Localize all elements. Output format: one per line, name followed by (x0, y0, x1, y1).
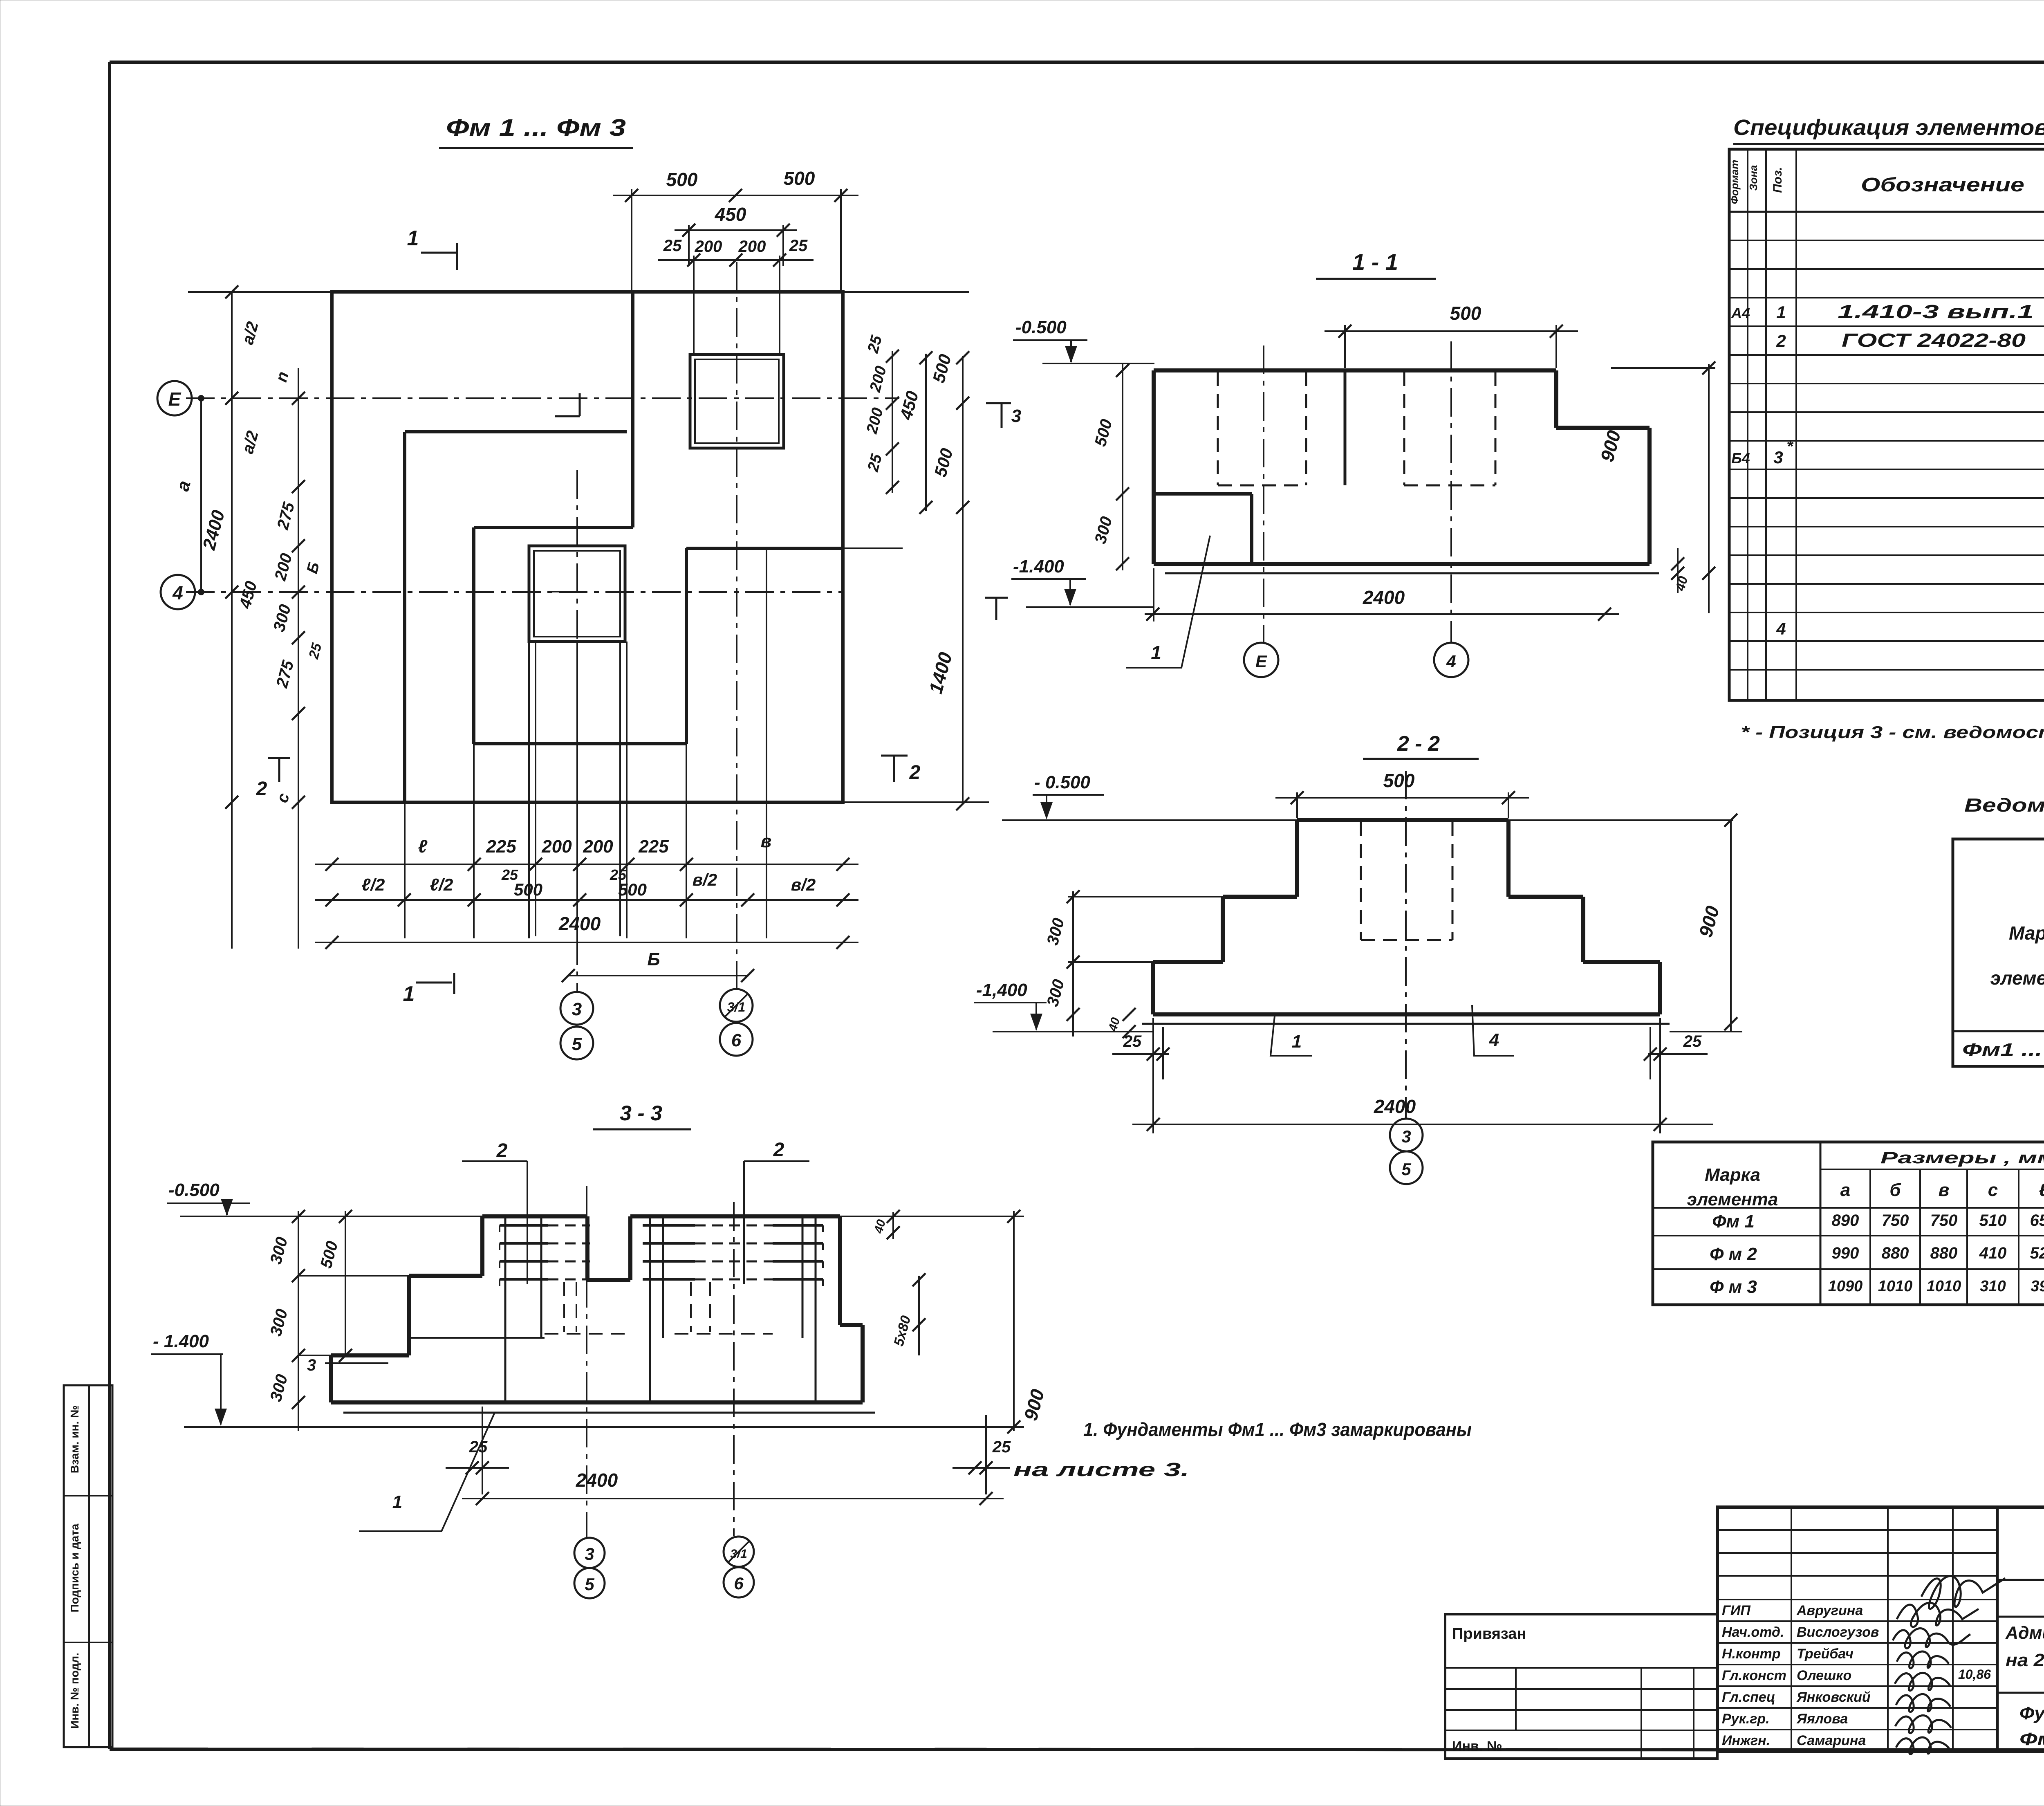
centerline axis 3 (3-3) (586, 1186, 587, 1537)
svg-text:Самарина: Самарина (1797, 1733, 1866, 1748)
svg-text:4: 4 (1489, 1030, 1499, 1050)
svg-text:25: 25 (864, 333, 885, 355)
section mark 1 bottom (403, 973, 454, 1006)
svg-text:1: 1 (407, 227, 419, 250)
svg-text:5х80: 5х80 (891, 1314, 914, 1348)
plan bottom dim 2400 (315, 913, 858, 949)
specification table grid (1729, 149, 2044, 700)
axis circle 6 (720, 1023, 753, 1056)
svg-text:Ф м 2: Ф м 2 (1710, 1244, 1757, 1264)
section mark 2 left (256, 757, 290, 800)
svg-text:40: 40 (872, 1218, 888, 1235)
svg-text:310: 310 (1980, 1278, 2006, 1295)
svg-text:4: 4 (1776, 619, 1786, 638)
foundation profile 3-3 (331, 1216, 863, 1402)
axis circle 3/1 (3-3) (724, 1537, 754, 1567)
svg-text:450: 450 (896, 389, 922, 422)
svg-text:500: 500 (1383, 770, 1415, 791)
plan step outline (405, 292, 843, 802)
section3 cut mark on 1-1 (986, 403, 1021, 428)
svg-text:а/2: а/2 (239, 320, 262, 346)
stadia list cells (1997, 1617, 2044, 1701)
sizes row Фм2 (1710, 1244, 2044, 1264)
svg-text:300: 300 (1044, 916, 1068, 947)
plan bottom dim row l 225 200 200 225 b (315, 831, 858, 871)
svg-text:Инв. № подл.: Инв. № подл. (68, 1653, 81, 1729)
axis circle 4 (1-1) (1434, 643, 1468, 677)
section mark 2 left (3-3) (462, 1140, 527, 1284)
svg-text:890: 890 (1832, 1211, 1859, 1229)
column centerline x1412 (576, 470, 578, 991)
svg-text:750: 750 (1882, 1211, 1909, 1229)
svg-text:ГИП: ГИП (1722, 1603, 1751, 1618)
svg-text:Подпись и дата: Подпись и дата (68, 1523, 81, 1612)
svg-text:ℓ/2: ℓ/2 (430, 875, 453, 894)
steel table texts (1962, 850, 2044, 1060)
svg-text:410: 410 (1979, 1244, 2007, 1262)
svg-text:Трейбач: Трейбач (1797, 1646, 1853, 1662)
sheet name (2019, 1703, 2044, 1749)
signature rows (1722, 1603, 1991, 1748)
svg-text:-1,400: -1,400 (976, 980, 1027, 1000)
svg-text:300: 300 (1044, 978, 1068, 1009)
svg-text:390: 390 (2031, 1278, 2044, 1295)
title block frame (1717, 1507, 2044, 1751)
svg-text:300: 300 (267, 1307, 291, 1338)
svg-text:Формат: Формат (1728, 160, 1741, 204)
svg-text:1.410-3 вып.1: 1.410-3 вып.1 (1838, 301, 2034, 322)
svg-text:в/2: в/2 (791, 875, 816, 894)
plan right dim 450 (896, 351, 932, 514)
svg-text:Спецификация элементов на: Спецификация элементов на монолитные фун… (1733, 115, 2044, 140)
plan right dim 500/500/1400 (843, 292, 989, 810)
section 3-3 title (593, 1102, 691, 1129)
spec row 4: Бетон (1776, 612, 2044, 641)
svg-text:1010: 1010 (1927, 1278, 1961, 1295)
svg-text:200: 200 (583, 837, 613, 857)
spec row 3: ф8 (1731, 437, 2044, 469)
axis 4 line (186, 591, 842, 593)
right dim 900 (3-3) (840, 1210, 1049, 1434)
svg-text:500: 500 (1091, 417, 1116, 449)
plan bottom dim row l/2 500 500 b/2 (315, 866, 858, 906)
svg-text:900: 900 (1596, 428, 1625, 464)
svg-text:Фм1 ... Фм3: Фм1 ... Фм3 (2019, 1729, 2044, 1749)
svg-text:n: n (272, 370, 292, 384)
svg-text:Ф м 3: Ф м 3 (1710, 1277, 1757, 1297)
svg-text:25: 25 (789, 237, 808, 255)
column lower-left (529, 546, 625, 642)
svg-text:5: 5 (1401, 1160, 1411, 1179)
svg-text:10,86: 10,86 (1958, 1667, 1991, 1682)
svg-text:1010: 1010 (1878, 1278, 1913, 1295)
svg-text:2400: 2400 (199, 508, 229, 552)
svg-text:200: 200 (271, 552, 296, 583)
bottom dim 2400 (1-1) (1145, 568, 1619, 621)
level -1.400 (2-2) (974, 980, 1153, 1032)
corner mark at E x 3 axis (555, 393, 580, 416)
svg-text:ГОСТ 24022-80: ГОСТ 24022-80 (1842, 330, 2026, 351)
section mark 2 right (3-3) (744, 1139, 809, 1284)
left dim chain 300x3 (3-3) (267, 1210, 409, 1431)
leader 1 (2-2) (1271, 1016, 1312, 1056)
svg-text:-0.500: -0.500 (168, 1180, 220, 1200)
right dim 900 + 40 (1-1) (1596, 361, 1715, 613)
svg-text:3 - 3: 3 - 3 (620, 1102, 662, 1125)
svg-text:* - Позиция 3 - см. ведомос: * - Позиция 3 - см. ведомость деталей (1741, 722, 2044, 742)
svg-text:2400: 2400 (558, 913, 601, 934)
svg-text:900: 900 (1694, 904, 1723, 940)
svg-text:1400: 1400 (925, 650, 956, 696)
svg-text:880: 880 (1930, 1244, 1958, 1262)
plan top dim 500+500 (613, 168, 858, 292)
svg-text:Фм1 ... Фм3: Фм1 ... Фм3 (1962, 1040, 2044, 1060)
section mark 2 right (881, 755, 921, 783)
svg-text:с: с (273, 791, 293, 805)
plan right dim chain 25/200/200/25 (863, 333, 899, 494)
svg-text:Вислогузов: Вислогузов (1797, 1624, 1879, 1640)
spec footnote (1741, 722, 2044, 742)
axis circle 3 (2-2) (1390, 1119, 1423, 1151)
svg-text:200: 200 (541, 837, 572, 857)
level -0.500 (1-1) (1013, 317, 1154, 363)
svg-text:Фм 1 ... Фм 3: Фм 1 ... Фм 3 (446, 114, 626, 141)
left dim chain 300/300 (2-2) (1044, 890, 1136, 1038)
svg-text:4: 4 (172, 582, 183, 603)
svg-text:5: 5 (585, 1575, 594, 1594)
svg-text:880: 880 (1882, 1244, 1909, 1262)
svg-text:900: 900 (1020, 1387, 1048, 1423)
svg-text:Инв. №: Инв. № (1452, 1739, 1502, 1754)
svg-text:25: 25 (864, 452, 885, 474)
privyazan table (1445, 1614, 1717, 1759)
axis circle 3/1 (720, 989, 753, 1022)
svg-text:500: 500 (929, 352, 955, 385)
right dim 900 (2-2) (1670, 814, 1742, 1032)
mortar layer 3-3 (343, 1412, 875, 1414)
svg-text:Рук.гр.: Рук.гр. (1722, 1711, 1770, 1727)
column centerline x1802 (736, 262, 737, 988)
svg-text:6: 6 (731, 1030, 742, 1050)
doc number 416-1-20 3,87-КЖ (1997, 1543, 2044, 1617)
svg-text:-0.500: -0.500 (1015, 317, 1067, 337)
svg-text:300: 300 (1091, 515, 1116, 546)
svg-text:5: 5 (572, 1034, 582, 1054)
svg-text:ℓ: ℓ (2039, 1180, 2044, 1200)
axis circle 4 (161, 575, 195, 609)
svg-text:2: 2 (773, 1139, 784, 1161)
svg-text:Олешко: Олешко (1797, 1668, 1851, 1683)
axis circle E (1-1) (1244, 643, 1278, 677)
svg-text:2 - 2: 2 - 2 (1397, 732, 1440, 756)
svg-text:в/2: в/2 (693, 870, 717, 889)
centerline (2-2) (1405, 771, 1407, 1119)
axis circle 5 (560, 1027, 593, 1059)
sizes row Фм1 (1712, 1211, 2044, 1232)
leader 1 (1-1) (1126, 536, 1210, 668)
mortar layer 2-2 (1142, 1023, 1670, 1025)
svg-text:Поз.: Поз. (1771, 167, 1784, 193)
svg-text:200: 200 (867, 364, 890, 394)
project name (2005, 1623, 2044, 1670)
section mark 1 top (407, 227, 457, 270)
svg-text:а: а (173, 478, 195, 493)
svg-text:200: 200 (695, 238, 722, 256)
svg-text:Гл.конст: Гл.конст (1722, 1668, 1786, 1683)
leader 3 (3-3) (307, 1356, 388, 1374)
svg-text:450: 450 (236, 579, 260, 611)
svg-text:500: 500 (317, 1239, 342, 1270)
svg-text:Нач.отд.: Нач.отд. (1722, 1624, 1784, 1640)
svg-text:2400: 2400 (576, 1469, 618, 1491)
centerline E (1-1) (1263, 345, 1264, 643)
plan title Фм1...Фм3 (439, 114, 633, 148)
level -0.500 (3-3) (167, 1180, 482, 1216)
svg-text:25: 25 (663, 237, 682, 255)
svg-text:ℓ: ℓ (418, 837, 428, 857)
svg-text:элемента: элемента (1990, 967, 2044, 989)
spec row 2: ГОСТ 24022-80 (1776, 329, 2044, 351)
svg-text:с: с (1988, 1180, 1998, 1200)
svg-text:275: 275 (273, 500, 298, 532)
svg-text:Инжгн.: Инжгн. (1722, 1733, 1770, 1748)
svg-text:1. Фундаменты Фм1 ... Фм3 зама: 1. Фундаменты Фм1 ... Фм3 замаркированы (1083, 1419, 1472, 1440)
sizes row Фм3 (1710, 1277, 2044, 1297)
svg-text:450: 450 (715, 204, 746, 225)
svg-text:6: 6 (734, 1574, 744, 1593)
steel table heading (1964, 794, 2044, 840)
svg-text:650: 650 (2030, 1211, 2044, 1229)
svg-text:500: 500 (666, 169, 698, 190)
svg-text:элемента: элемента (1687, 1189, 1778, 1209)
svg-text:750: 750 (1930, 1211, 1958, 1229)
svg-text:300: 300 (267, 1235, 291, 1266)
svg-text:Е: Е (1255, 652, 1268, 671)
svg-text:3: 3 (1401, 1127, 1411, 1146)
spec row 1: 1.410-3 вып.1 (1731, 299, 2044, 332)
svg-text:а/2: а/2 (239, 429, 262, 455)
svg-text:40: 40 (1106, 1016, 1123, 1033)
section mark 3 lower (985, 598, 1008, 620)
svg-text:510: 510 (1979, 1211, 2007, 1229)
section 2-2 title (1363, 732, 1479, 759)
svg-text:1: 1 (403, 982, 415, 1006)
svg-text:3: 3 (572, 999, 582, 1019)
svg-text:a: a (1840, 1180, 1850, 1200)
svg-text:2: 2 (1776, 331, 1786, 350)
left margin stamp (64, 1385, 112, 1747)
svg-text:Авругина: Авругина (1796, 1603, 1863, 1618)
level -0.500 (2-2) (1033, 772, 1104, 819)
axis circle E (157, 381, 192, 415)
left dim 500 (3-3) (317, 1210, 352, 1362)
bottom dim 25 right (3-3) (953, 1415, 1011, 1494)
svg-text:- 0.500: - 0.500 (1034, 772, 1091, 792)
steel table grid (1953, 839, 2044, 1066)
svg-text:Размеры , мм: Размеры , мм (1880, 1149, 2044, 1167)
centerline 4 (1-1) (1450, 341, 1452, 643)
svg-text:2: 2 (909, 762, 921, 783)
hidden glass pocket 2-2 (1361, 822, 1452, 940)
plan bottom dim Б (562, 949, 754, 982)
left dim chain 500/300 (1-1) (1091, 364, 1129, 570)
svg-text:990: 990 (1832, 1244, 1859, 1262)
svg-text:ℓ/2: ℓ/2 (362, 875, 385, 894)
specification header texts (1728, 160, 2044, 205)
axis circle 3 (3-3) (574, 1538, 605, 1568)
rebar cage left (3-3) (411, 1216, 630, 1402)
sizes table texts (1687, 1149, 2044, 1209)
plan dim 450 (675, 204, 797, 266)
svg-text:на листе 3.: на листе 3. (1013, 1459, 1189, 1480)
svg-text:500: 500 (784, 168, 815, 189)
rebar cage right (3-3) (643, 1216, 823, 1402)
svg-text:Привязан: Привязан (1452, 1625, 1526, 1642)
svg-text:1090: 1090 (1828, 1278, 1863, 1295)
leader 4 (2-2) (1472, 1005, 1514, 1056)
axis circle 5 (2-2) (1390, 1151, 1423, 1184)
dim 500 (2-2) (1275, 770, 1529, 818)
svg-text:300: 300 (270, 603, 295, 634)
svg-text:А4: А4 (1731, 305, 1750, 321)
signatures squiggles (1893, 1576, 2005, 1754)
svg-text:Марка: Марка (1705, 1165, 1760, 1185)
svg-text:Фундамент монолитный: Фундамент монолитный (2019, 1703, 2044, 1723)
svg-text:Гл.спец: Гл.спец (1722, 1689, 1775, 1705)
svg-text:1: 1 (392, 1492, 402, 1512)
svg-text:Яялова: Яялова (1796, 1711, 1848, 1727)
axis circle 3 (560, 992, 593, 1025)
svg-text:1: 1 (1776, 303, 1786, 322)
svg-text:3: 3 (307, 1356, 316, 1374)
level -1.400 (1-1) (1011, 556, 1154, 607)
axis circle 5 (3-3) (574, 1568, 605, 1598)
svg-text:1: 1 (1151, 642, 1161, 663)
dim 25 right (2-2) (1644, 1027, 1708, 1079)
svg-text:500: 500 (618, 880, 647, 899)
svg-text:3: 3 (1011, 406, 1021, 426)
svg-text:500: 500 (930, 446, 957, 479)
hidden glass pockets 1-1 (1218, 372, 1495, 485)
foundation profile 2-2 (1153, 820, 1660, 1014)
column upper-right (690, 354, 784, 448)
svg-text:25: 25 (1123, 1032, 1142, 1050)
axis circle 6 (3-3) (724, 1567, 754, 1597)
svg-text:500: 500 (1450, 303, 1481, 324)
bottom dim 2400 (2-2) (1132, 1018, 1713, 1133)
sizes table grid (1653, 1142, 2044, 1305)
svg-text:25: 25 (306, 641, 325, 661)
foundation profile 1-1 (1154, 370, 1650, 564)
svg-text:в: в (761, 831, 772, 851)
svg-text:225: 225 (638, 837, 669, 857)
svg-text:б: б (1889, 1180, 1901, 1200)
svg-text:500: 500 (514, 880, 542, 899)
svg-text:25: 25 (469, 1438, 488, 1456)
axis E line (186, 397, 899, 399)
svg-text:200: 200 (863, 406, 887, 436)
mortar layer 1-1 (1165, 572, 1659, 574)
svg-text:2: 2 (256, 778, 267, 800)
section 1-1 title (1316, 249, 1436, 279)
svg-text:200: 200 (738, 238, 766, 256)
specification table heading (1733, 115, 2044, 144)
top level line (2-2) (1002, 819, 1733, 821)
svg-text:Ведомость расхода стали на: Ведомость расхода стали на один (1964, 794, 2044, 816)
svg-text:Административный корпус: Административный корпус (2005, 1623, 2044, 1643)
svg-text:225: 225 (486, 837, 516, 857)
plan left axis dim a / 2400 (173, 395, 229, 595)
right dims 40 and 5x80 (3-3) (872, 1210, 926, 1355)
plan dim 25 200 200 25 (658, 237, 814, 354)
bottom dim 25 left (3-3) (446, 1407, 509, 1494)
svg-text:Н.контр: Н.контр (1722, 1646, 1781, 1662)
svg-text:Обозначение: Обозначение (1861, 174, 2024, 196)
svg-text:Марка: Марка (2009, 922, 2044, 944)
svg-text:- 1.400: - 1.400 (153, 1331, 209, 1351)
svg-text:Янковский: Янковский (1796, 1689, 1871, 1705)
plan outer slab outline (332, 292, 843, 802)
svg-text:Взам. ин. №: Взам. ин. № (68, 1405, 81, 1474)
svg-text:-1.400: -1.400 (1013, 556, 1064, 577)
svg-text:25: 25 (992, 1438, 1011, 1456)
svg-text:3: 3 (1773, 448, 1783, 467)
svg-text:520: 520 (2030, 1244, 2044, 1262)
bottom dim 2400 (3-3) (462, 1469, 1004, 1505)
dim 25 left (2-2) (1112, 1027, 1170, 1079)
plan left dim chain x730 (188, 292, 332, 949)
svg-text:Фм 1: Фм 1 (1712, 1211, 1755, 1232)
svg-text:2: 2 (496, 1140, 508, 1162)
dim 500 (1-1) (1325, 303, 1578, 368)
svg-text:2400: 2400 (1363, 587, 1405, 608)
svg-text:275: 275 (273, 658, 297, 690)
svg-text:300: 300 (267, 1373, 291, 1404)
leader 1 (3-3) (359, 1413, 495, 1531)
svg-text:2400: 2400 (1374, 1096, 1416, 1117)
svg-text:Б4: Б4 (1731, 450, 1750, 467)
step witness extensions 2-2 (1068, 897, 1223, 962)
centerline axis 3/1 (3-3) (733, 1202, 735, 1536)
svg-text:Б: Б (304, 560, 323, 575)
svg-text:в: в (1939, 1180, 1950, 1200)
svg-text:Е: Е (168, 388, 182, 410)
svg-text:25: 25 (1683, 1032, 1702, 1050)
svg-text:Зона: Зона (1747, 165, 1759, 191)
plan left witness chain x567 (225, 285, 238, 949)
svg-text:4: 4 (1446, 652, 1456, 671)
svg-text:1 - 1: 1 - 1 (1352, 249, 1398, 275)
svg-text:Б: Б (647, 949, 660, 969)
signature grid (1717, 1507, 1997, 1751)
level -1.400 (3-3) (151, 1331, 1024, 1427)
note 1 (1013, 1419, 1472, 1480)
svg-text:3: 3 (585, 1544, 594, 1564)
svg-text:1: 1 (1292, 1032, 1302, 1052)
svg-text:на 20 рабочих мест: на 20 рабочих мест (2006, 1650, 2044, 1670)
svg-text:*: * (1786, 437, 1794, 455)
svg-text:40: 40 (1672, 574, 1690, 593)
plan bottom witness lines (405, 548, 766, 938)
